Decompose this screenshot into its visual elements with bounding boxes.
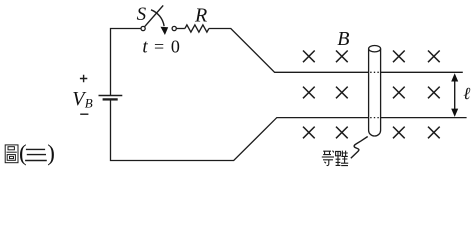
svg-text:ℓ: ℓ: [463, 84, 470, 103]
rod outline sides and rounded bottom: [369, 49, 381, 136]
svg-text:R: R: [194, 4, 207, 26]
x mark r3c3: [393, 127, 405, 139]
svg-text:B: B: [337, 28, 349, 50]
wire: battery bottom to bottom wire and diagonal up to bottom rail: [111, 99, 369, 160]
switch closing arc: [151, 10, 164, 26]
x mark r2c1: [303, 87, 315, 99]
rod (conductor) white body: [369, 49, 380, 133]
field x marks grid: [303, 51, 440, 139]
x mark r1c1: [303, 51, 315, 63]
x mark r3c4: [428, 127, 440, 139]
wire: resistor to top-right diagonal: [209, 29, 369, 73]
x mark r1c4: [428, 51, 440, 63]
length dimension double arrow: [451, 73, 458, 117]
x mark r3c2: [336, 127, 348, 139]
leader squiggle to rod: [351, 137, 368, 159]
CJK glyph: 體 (conductor char 2): [336, 151, 349, 166]
CJK glyph: 圖 (figure): [5, 145, 18, 163]
svg-text:=: =: [154, 37, 164, 57]
x mark r3c1: [303, 127, 315, 139]
svg-text:B: B: [85, 96, 93, 111]
svg-text:S: S: [137, 4, 147, 25]
svg-text:(: (: [19, 141, 27, 166]
svg-text:0: 0: [171, 37, 180, 57]
svg-text:t: t: [142, 37, 148, 58]
wire: switch right contact to resistor: [176, 28, 185, 30]
switch S: right contact circle: [172, 26, 176, 30]
battery VB plates: [99, 96, 123, 100]
wire: top rail right of rod: [381, 71, 463, 73]
x mark r1c3: [393, 51, 405, 63]
hidden rail dots behind rod (top): [370, 71, 380, 73]
hidden rail dots behind rod (bottom): [370, 117, 380, 119]
wire: bottom rail right of rod: [381, 117, 467, 119]
switch closing arrowhead: [161, 27, 169, 35]
CJK glyph: 三 (three): [25, 149, 47, 160]
battery - polarity mark: [80, 113, 88, 115]
x mark r2c3: [393, 87, 405, 99]
switch S: left contact circle: [141, 26, 145, 30]
rod top ellipse: [369, 46, 381, 52]
battery + polarity mark: [80, 75, 89, 114]
x mark r2c2: [336, 87, 348, 99]
x mark r2c4: [428, 87, 440, 99]
CJK glyph: 導 (conductor char 1): [322, 151, 334, 166]
wire: left vertical + top wire to switch: [111, 29, 141, 96]
x mark r1c2: [336, 51, 348, 63]
svg-text:): ): [47, 141, 55, 166]
resistor R zigzag: [185, 25, 209, 32]
switch S: blade (open): [145, 5, 164, 26]
